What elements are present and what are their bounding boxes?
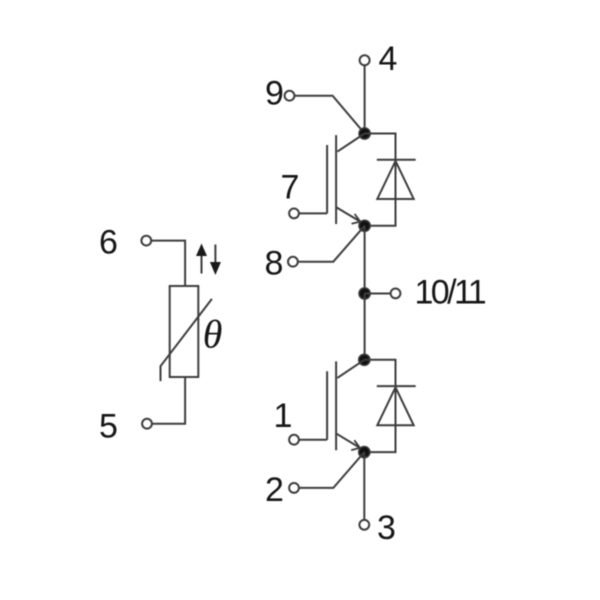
terminal 10/11 — [391, 289, 401, 299]
terminal 5 — [142, 419, 152, 429]
terminal 3 — [359, 520, 369, 530]
svg-text:6: 6 — [99, 224, 118, 262]
terminal 7 — [289, 209, 299, 219]
node C1 top collector — [359, 128, 370, 139]
wire terminal2 to emitter node — [299, 452, 364, 488]
svg-text:9: 9 — [265, 74, 284, 112]
wire terminal9 to collector node — [295, 96, 365, 134]
node E1 top emitter — [359, 220, 370, 231]
svg-text:5: 5 — [99, 408, 118, 446]
IGBT Q2 — [299, 360, 364, 451]
diode D2 — [364, 360, 415, 452]
wire thermistor bottom to terminal 5 — [152, 377, 185, 424]
terminal 1 — [289, 435, 299, 445]
wire E1 to midpoint — [364, 226, 366, 294]
thermistor R1 — [161, 286, 212, 381]
node M midpoint — [359, 288, 370, 299]
svg-text:7: 7 — [281, 169, 300, 207]
terminal 2 — [289, 483, 299, 493]
wire terminal4 to collector node — [364, 65, 366, 133]
terminal 8 — [288, 257, 298, 267]
terminal 6 — [141, 236, 151, 246]
svg-text:4: 4 — [379, 40, 398, 78]
wire midpoint to C2 — [364, 294, 366, 360]
IGBT Q1 — [299, 134, 365, 225]
wire terminal8 to emitter node — [298, 226, 365, 262]
svg-text:10/11: 10/11 — [415, 274, 486, 312]
terminal 9 — [285, 91, 295, 101]
svg-text:3: 3 — [377, 509, 396, 547]
svg-text:8: 8 — [265, 244, 284, 282]
node C2 bottom collector — [359, 354, 370, 365]
wire terminal6 to thermistor top — [151, 241, 185, 286]
diode D1 — [365, 134, 416, 226]
terminal 4 — [360, 55, 370, 65]
node E2 bottom emitter — [359, 447, 370, 458]
svg-text:1: 1 — [274, 397, 293, 435]
svg-text:2: 2 — [265, 471, 284, 509]
wire midpoint to terminal 10/11 — [365, 293, 391, 295]
wire E2 to terminal 3 — [363, 452, 365, 520]
svg-text:θ: θ — [203, 312, 223, 357]
bidirectional current arrows — [196, 244, 221, 276]
